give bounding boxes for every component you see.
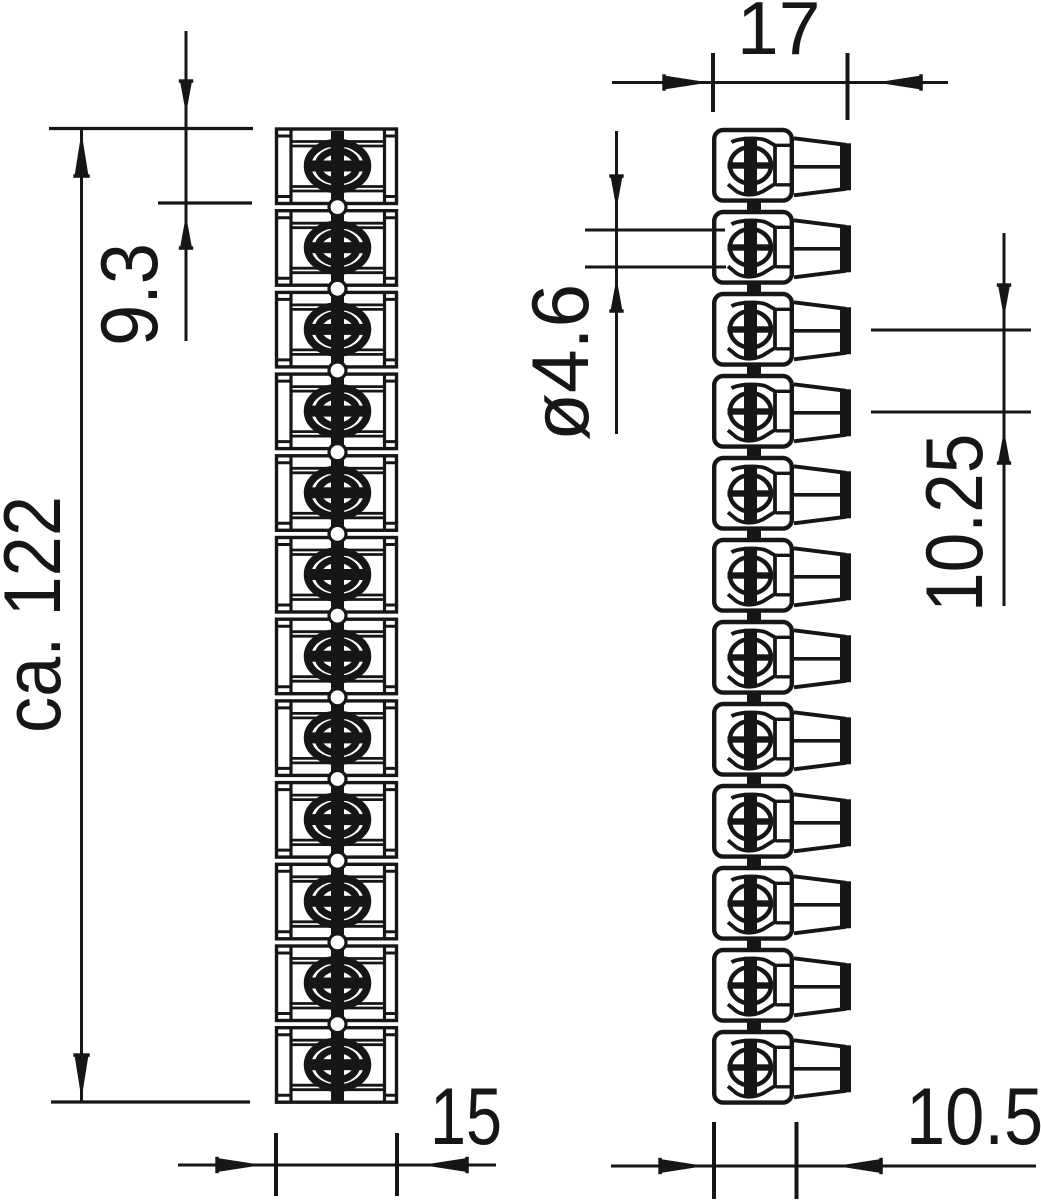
terminal pole 5 (side view) <box>714 458 851 529</box>
dimension line phi4.6 vertical <box>615 131 618 434</box>
link web 6 (side view) <box>747 610 761 621</box>
arrow right (dim 10.5) <box>660 1159 705 1173</box>
extension line bottom edge (ca.122) <box>51 1100 250 1103</box>
link web 1 (side view) <box>747 200 761 211</box>
extension tick left (dim 10.5) <box>712 1122 716 1199</box>
dimension line ca.122 vertical <box>80 129 83 1103</box>
extension line lower (10.25) <box>871 411 1031 414</box>
terminal pole 3 (top view) <box>277 292 397 367</box>
arrow up at ca.122 top <box>75 132 89 176</box>
link hole 8 (top view) <box>331 768 344 790</box>
svg-text:15: 15 <box>430 1071 502 1162</box>
link web 9 (side view) <box>747 856 761 867</box>
terminal pole 1 (side view) <box>714 130 851 201</box>
extension tick right (dim 17) <box>846 53 850 120</box>
terminal pole 4 (side view) <box>714 376 851 447</box>
terminal pole 10 (side view) <box>714 868 851 939</box>
arrow right (dim 15) <box>217 1158 262 1172</box>
terminal pole 11 (top view) <box>277 946 397 1021</box>
terminal pole 1 (top view) <box>277 129 397 204</box>
link web 4 (side view) <box>747 446 761 457</box>
link hole 9 (top view) <box>331 850 344 872</box>
terminal pole 3 (side view) <box>714 294 851 365</box>
extension line top edge (dims 9.3 and ca.122) <box>49 127 253 130</box>
extension tick left (dim 15) <box>274 1133 278 1196</box>
arrow up (10.25) <box>998 430 1010 463</box>
arrow left (dim 10.5) <box>836 1159 881 1173</box>
extension tick left (dim 17) <box>711 53 715 112</box>
arrow up at 9.3 bottom <box>180 215 192 248</box>
svg-text:ø4.6: ø4.6 <box>515 284 605 441</box>
link web 5 (side view) <box>747 528 761 539</box>
link hole 5 (top view) <box>331 523 344 545</box>
terminal pole 10 (top view) <box>277 864 397 939</box>
dimension line 9.3 vertical <box>185 31 188 341</box>
link web 7 (side view) <box>747 692 761 703</box>
extension line first pitch (dim 9.3) <box>158 201 252 204</box>
svg-text:ca. 122: ca. 122 <box>0 496 78 733</box>
link hole 1 (top view) <box>331 196 344 218</box>
arrow down at ca.122 bottom <box>75 1055 89 1099</box>
extension line upper (10.25) <box>871 329 1031 332</box>
dimension line 10.25 vertical <box>1003 233 1006 606</box>
terminal pole 7 (top view) <box>277 619 397 694</box>
dimension line 15 <box>178 1164 496 1167</box>
link hole 10 (top view) <box>331 931 344 953</box>
arrow right (dim 17) <box>664 76 709 90</box>
terminal pole 9 (side view) <box>714 786 851 857</box>
svg-text:10.5: 10.5 <box>906 1071 1041 1162</box>
terminal pole 6 (side view) <box>714 540 851 611</box>
terminal pole 6 (top view) <box>277 538 397 613</box>
extension tick right (dim 15) <box>395 1133 399 1196</box>
terminal pole 7 (side view) <box>714 622 851 693</box>
terminal pole 2 (top view) <box>277 211 397 286</box>
terminal pole 4 (top view) <box>277 374 397 449</box>
svg-text:17: 17 <box>737 0 820 70</box>
link hole 6 (top view) <box>331 605 344 627</box>
arrow down (phi4.6) <box>611 176 623 209</box>
extension line upper (phi4.6) <box>585 229 725 232</box>
terminal pole 12 (side view) <box>714 1032 851 1103</box>
terminal pole 8 (side view) <box>714 704 851 775</box>
link web 8 (side view) <box>747 774 761 785</box>
link web 3 (side view) <box>747 364 761 375</box>
terminal pole 8 (top view) <box>277 701 397 776</box>
arrow down (10.25) <box>998 285 1010 318</box>
arrow left (dim 17) <box>876 76 921 90</box>
terminal pole 2 (side view) <box>714 212 851 283</box>
link web 2 (side view) <box>747 282 761 293</box>
link hole 2 (top view) <box>331 278 344 300</box>
svg-text:9.3: 9.3 <box>85 243 175 346</box>
link web 11 (side view) <box>747 1020 761 1031</box>
link web 10 (side view) <box>747 938 761 949</box>
extension tick right (dim 10.5) <box>795 1122 799 1199</box>
terminal pole 9 (top view) <box>277 783 397 858</box>
link hole 4 (top view) <box>331 441 344 463</box>
link hole 3 (top view) <box>331 360 344 382</box>
extension line lower (phi4.6) <box>585 266 726 269</box>
arrow down at 9.3 top <box>180 81 192 114</box>
arrow left (dim 15) <box>422 1158 467 1172</box>
arrow up (phi4.6) <box>611 278 623 311</box>
dimension line 17 <box>612 81 948 84</box>
dimension line 10.5 <box>611 1165 1036 1168</box>
terminal pole 11 (side view) <box>714 950 851 1021</box>
link hole 11 (top view) <box>331 1013 344 1035</box>
terminal pole 5 (top view) <box>277 456 397 531</box>
svg-text:10.25: 10.25 <box>910 434 1000 612</box>
link hole 7 (top view) <box>331 686 344 708</box>
terminal pole 12 (top view) <box>277 1028 397 1103</box>
